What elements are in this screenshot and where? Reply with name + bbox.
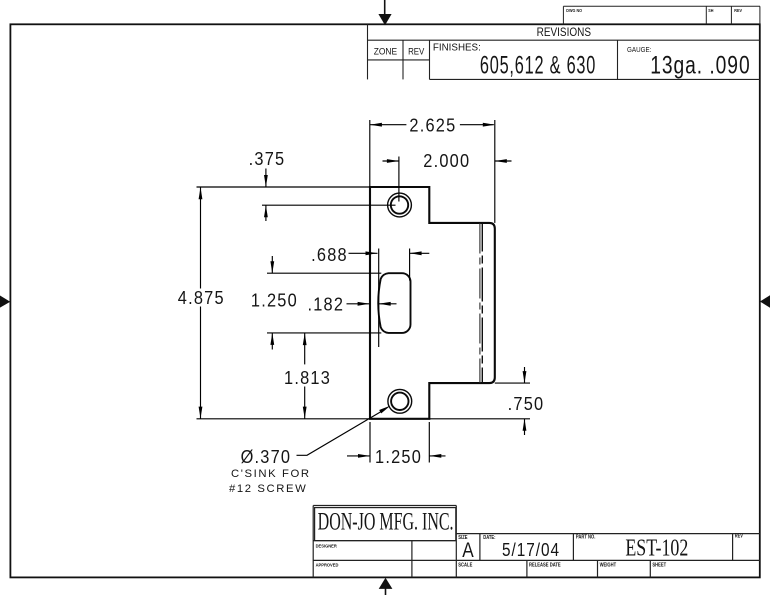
svg-text:.182: .182 (307, 293, 344, 314)
svg-text:#12 SCREW: #12 SCREW (229, 483, 307, 495)
svg-text:1.250: 1.250 (251, 290, 298, 311)
svg-text:REV: REV (735, 533, 743, 539)
svg-text:DON-JO MFG. INC.: DON-JO MFG. INC. (318, 507, 454, 536)
extension lines (197, 120, 531, 463)
strike plate outline (370, 187, 495, 419)
svg-text:Ø.370: Ø.370 (241, 446, 292, 467)
svg-text:605,612 & 630: 605,612 & 630 (480, 52, 596, 79)
top hole center horizontal line (262, 204, 396, 206)
dimension 1.250 bottom (347, 446, 446, 467)
bottom step extension line (428, 422, 430, 463)
lip right edge upward extension line (494, 120, 496, 223)
svg-text:DWG NO: DWG NO (566, 7, 582, 13)
latch cutout (378, 273, 410, 333)
svg-text:FINISHES:: FINISHES: (433, 42, 481, 53)
left centering arrow (0, 296, 10, 308)
dimension .182 (307, 293, 396, 314)
lip bend center line 2 (481, 224, 483, 383)
top screw hole countersink circle (388, 193, 412, 217)
top hole center vertical line (398, 157, 400, 202)
svg-text:2.625: 2.625 (409, 115, 456, 136)
top centering arrow (378, 0, 391, 25)
plate bottom extension line left (197, 418, 371, 420)
revisions table lines (368, 24, 761, 79)
svg-text:1.813: 1.813 (284, 367, 331, 388)
plate bottom extension line right (429, 418, 530, 420)
svg-text:13ga. .090: 13ga. .090 (650, 51, 750, 79)
cutout right extension line (409, 249, 411, 281)
svg-text:4.875: 4.875 (178, 287, 225, 308)
svg-text:.688: .688 (311, 244, 348, 265)
svg-text:DESIGNER: DESIGNER (316, 543, 338, 548)
svg-text:REVISIONS: REVISIONS (537, 26, 591, 39)
cutout bottom extension line (267, 332, 381, 334)
svg-text:SH: SH (708, 7, 713, 13)
svg-text:APPROVED: APPROVED (316, 562, 340, 567)
cutout left extension line (378, 249, 380, 348)
svg-text:PART NO.: PART NO. (576, 534, 595, 540)
header strip labels (566, 7, 742, 13)
title block lines (313, 506, 760, 578)
svg-text:C'SINK FOR: C'SINK FOR (231, 468, 311, 480)
svg-text:1.250: 1.250 (375, 446, 422, 467)
DON-JO logo box (315, 508, 456, 541)
bottom screw hole (391, 393, 408, 410)
dimension .688 (311, 244, 429, 265)
svg-text:5/17/04: 5/17/04 (502, 539, 560, 560)
dimension .375 (249, 148, 286, 221)
left edge upward extension line (369, 120, 371, 187)
svg-text:SHEET: SHEET (652, 562, 666, 568)
svg-text:REV: REV (408, 46, 425, 57)
microfilm header strip (DWG NO / SH / REV) (563, 6, 760, 24)
svg-text:.750: .750 (508, 393, 545, 414)
svg-text:DATE:: DATE: (483, 535, 496, 541)
svg-text:2.000: 2.000 (423, 150, 470, 171)
bottom centering arrow (379, 578, 393, 595)
svg-text:RELEASE DATE: RELEASE DATE (529, 562, 561, 568)
lip bottom extension line (495, 382, 530, 384)
svg-text:WEIGHT: WEIGHT (600, 562, 617, 568)
right centering arrow (760, 295, 770, 307)
countersink note text (229, 446, 311, 495)
dimension 4.875 (178, 187, 225, 418)
bottom screw hole countersink circle (388, 389, 412, 413)
svg-text:A: A (462, 538, 473, 562)
dimension 1.813 (284, 333, 331, 419)
svg-text:ZONE: ZONE (374, 46, 398, 56)
svg-text:SCALE: SCALE (458, 562, 472, 568)
cutout top extension line (267, 272, 381, 274)
plate left edge downward extension line (369, 422, 371, 463)
lip bend center line 1 (479, 224, 481, 383)
dimension 2.000 (383, 150, 512, 171)
svg-text:.375: .375 (249, 148, 286, 169)
countersink leader line (297, 406, 391, 456)
svg-text:EST-102: EST-102 (625, 534, 688, 561)
dimension 2.625 (370, 115, 495, 136)
plate top extension line (197, 186, 371, 188)
top screw hole (391, 196, 408, 213)
dimension 1.250 cutout height (251, 256, 298, 350)
svg-text:REV: REV (734, 7, 742, 13)
svg-text:GAUGE:: GAUGE: (627, 47, 652, 55)
dimension .750 (508, 367, 545, 435)
